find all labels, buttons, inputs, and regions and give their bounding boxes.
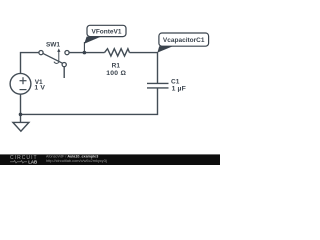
svg-text:1 µF: 1 µF: [172, 85, 186, 92]
svg-text:http://circuitlab.com/c/w5c2mk: http://circuitlab.com/c/w5c2mkycy3j: [46, 158, 107, 163]
capacitor C1: [147, 83, 169, 88]
svg-text:VcapacitorC1: VcapacitorC1: [163, 37, 205, 44]
svg-text:100 Ω: 100 Ω: [106, 70, 126, 77]
svg-text:VFonteV1: VFonteV1: [92, 28, 122, 35]
actuation arrow: [58, 52, 60, 63]
voltage source V1: [10, 73, 31, 94]
svg-text:R1: R1: [112, 63, 121, 70]
ground: [13, 122, 29, 131]
switch SW1: [39, 48, 69, 78]
voltage probe flag VcapacitorC1: [157, 33, 208, 53]
svg-text:C1: C1: [171, 78, 180, 85]
svg-text:LAB: LAB: [28, 159, 37, 164]
wire: bottom throw stub: [63, 67, 65, 78]
voltage probe flag VFonteV1: [84, 25, 126, 52]
wire: capacitor bottom to ground rail: [21, 88, 158, 115]
terminal circle common: [39, 51, 43, 55]
node: VFonteV1 junction dot: [83, 51, 87, 55]
resistor R1: [105, 49, 130, 56]
watermark bar: [0, 154, 220, 165]
svg-text:SW1: SW1: [46, 42, 60, 49]
wire: switch to resistor: [69, 52, 104, 54]
node: ground rail junction dot: [19, 113, 23, 117]
svg-text:1 V: 1 V: [34, 85, 45, 92]
terminal circle throw bottom: [62, 63, 66, 67]
terminal circle throw right: [65, 51, 69, 55]
lever: [43, 53, 62, 63]
wire: V1 top lead to switch common: [21, 53, 39, 74]
wire: V1 bottom lead to ground: [20, 94, 22, 122]
wire: resistor to capacitor top: [130, 53, 158, 84]
watermark logo waveform and LAB: [10, 159, 37, 164]
